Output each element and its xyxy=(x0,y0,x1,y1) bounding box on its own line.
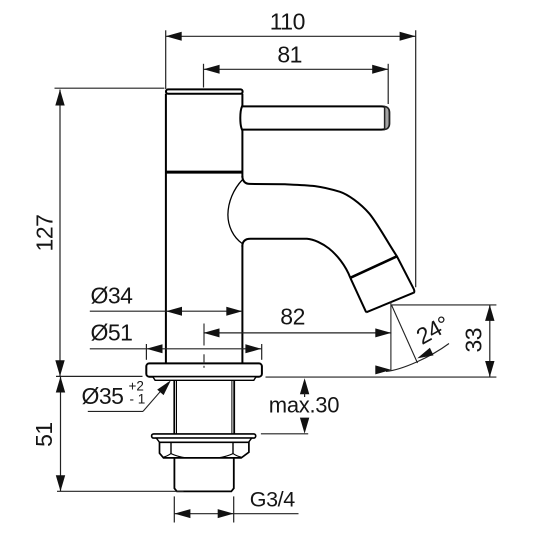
dim 81 arrow right xyxy=(372,65,388,74)
body joint line xyxy=(166,171,243,174)
aerator end face xyxy=(366,293,413,313)
svg-text:max.30: max.30 xyxy=(269,393,339,418)
dim 33 line xyxy=(489,305,491,377)
dim D34 arrow left xyxy=(166,307,182,316)
svg-text:127: 127 xyxy=(32,215,58,252)
svg-text:Ø35: Ø35 xyxy=(82,383,124,409)
spout fill xyxy=(242,176,414,312)
bottom pipe xyxy=(174,458,233,491)
dim G3/4 arrow left xyxy=(174,509,190,518)
faucet body right edge lower xyxy=(241,246,243,364)
svg-text:Ø34: Ø34 xyxy=(91,282,134,308)
24deg horizontal arrow at vertical line xyxy=(375,365,391,374)
24deg arc arrow at angled line xyxy=(417,348,433,359)
svg-text:51: 51 xyxy=(31,422,57,447)
dim 110 line xyxy=(166,35,416,37)
dim 110 extension left xyxy=(165,30,167,89)
max.30 bottom extension xyxy=(261,433,308,435)
dim 110 arrow left xyxy=(166,32,182,41)
dim 127 arrow bottom xyxy=(55,360,64,376)
dim 81 arrow left xyxy=(204,65,220,74)
max.30 up arrow xyxy=(300,378,309,394)
dim D34 line xyxy=(90,310,243,312)
dim G3/4 extension right xyxy=(233,496,235,522)
24deg angled line xyxy=(392,305,418,363)
dim D51 arrow right xyxy=(245,344,261,353)
nut facet arc center-left xyxy=(171,454,186,458)
dim 127 extension top xyxy=(55,87,165,89)
washer lower ring xyxy=(156,438,251,442)
aerator separator line xyxy=(350,256,397,278)
dim 82 line xyxy=(204,332,392,334)
washer top bar xyxy=(152,434,256,438)
svg-text:- 1: - 1 xyxy=(130,392,146,407)
spout top outline xyxy=(242,176,414,293)
outlet level extension line xyxy=(392,304,497,306)
flange lip xyxy=(153,377,256,381)
D35 leader diagonal xyxy=(143,383,168,412)
dim D34 arrow right xyxy=(226,307,242,316)
dim 51 extension bottom xyxy=(57,490,184,492)
shank inner left line xyxy=(176,380,178,434)
svg-text:G3/4: G3/4 xyxy=(250,487,295,511)
faucet body cap xyxy=(166,89,243,93)
dim 51 line xyxy=(60,377,62,492)
dim D51 extension left xyxy=(145,344,147,360)
dim G3/4 arrow right xyxy=(218,509,234,518)
dim 81 extension left xyxy=(203,64,205,88)
dim 33 arrow top xyxy=(485,305,494,321)
dim 81 extension right xyxy=(387,64,389,104)
shank outer left line xyxy=(173,380,175,434)
max.30 stub top xyxy=(304,393,306,397)
dim 127 extension bottom xyxy=(56,375,143,377)
24deg arc xyxy=(386,344,449,372)
dim 110 arrow right xyxy=(400,32,416,41)
svg-text:82: 82 xyxy=(280,304,305,330)
dim 127 line xyxy=(59,90,61,377)
svg-text:110: 110 xyxy=(270,9,305,35)
svg-text:Ø51: Ø51 xyxy=(91,320,133,346)
shank inner right line xyxy=(231,380,233,434)
dim 110 extension right xyxy=(415,30,417,287)
D35 leader underline xyxy=(88,410,143,412)
dim G3/4 line xyxy=(174,513,298,515)
body waist concave curve xyxy=(228,180,243,244)
D35 leader arrow xyxy=(157,380,171,395)
dim 82 arrow right xyxy=(375,328,391,337)
dim 127 arrow top xyxy=(55,90,64,106)
lever handle xyxy=(240,106,389,129)
mounting plane extension line xyxy=(266,376,497,378)
lever end cap (gray) xyxy=(385,107,390,130)
svg-text:33: 33 xyxy=(461,328,487,353)
base flange xyxy=(146,363,262,376)
dim D51 arrow left xyxy=(147,344,163,353)
nut facet arc left xyxy=(163,454,171,458)
nut facet arc right xyxy=(233,454,241,458)
nut facet line right xyxy=(232,442,234,453)
faucet body right edge upper xyxy=(241,94,243,178)
centerline axis segment 1 xyxy=(203,324,205,346)
dim D51 line xyxy=(90,348,262,350)
dim D51 extension right xyxy=(261,344,263,360)
svg-text:81: 81 xyxy=(277,42,302,68)
dim 51 arrow top xyxy=(56,377,65,393)
nut facet arc center-right xyxy=(218,454,233,458)
centerline axis segment 2 xyxy=(203,354,205,363)
shank outer right line xyxy=(233,380,235,434)
dim G3/4 extension left xyxy=(173,496,175,522)
aerator left edge xyxy=(350,278,366,313)
dim 33 arrow bottom xyxy=(485,361,494,377)
centerline axis dot xyxy=(203,366,205,368)
faucet body left edge xyxy=(165,94,167,364)
max.30 down arrow xyxy=(300,418,309,434)
dim 51 arrow bottom xyxy=(56,475,65,491)
dim 81 line xyxy=(204,68,389,70)
nut facet line left xyxy=(170,442,172,453)
spout bottom outline xyxy=(242,239,350,278)
dim 82 extension right (spout tip vertical) xyxy=(390,302,392,371)
dim 82 arrow left xyxy=(204,328,220,337)
hex nut xyxy=(160,442,249,458)
